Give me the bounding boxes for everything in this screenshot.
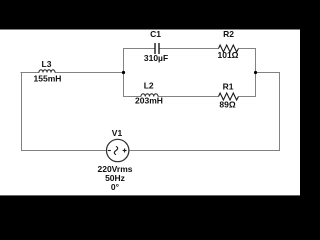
wire: bottom right segment <box>129 150 280 152</box>
svg-text:310µF: 310µF <box>144 53 168 63</box>
wire: top branch R2 right lead <box>239 48 257 50</box>
wire: bottom left segment <box>21 150 107 152</box>
svg-text:101Ω: 101Ω <box>218 50 239 60</box>
AC source V1 <box>98 128 133 192</box>
wire: bottom branch L2 to R1 lead <box>158 96 219 98</box>
svg-text:203mH: 203mH <box>135 96 163 106</box>
svg-text:V1: V1 <box>112 128 123 138</box>
svg-text:89Ω: 89Ω <box>219 100 235 110</box>
resistor R2 <box>218 29 239 60</box>
wire: right vertical riser <box>279 72 281 151</box>
wire: left vertical <box>21 73 23 151</box>
wire: top branch C1 to R2 lead <box>159 48 218 50</box>
inductor L2 <box>135 81 163 106</box>
wire: bottom branch R1 right lead <box>239 96 257 98</box>
schematic canvas <box>0 30 300 196</box>
node B junction dot <box>122 71 125 74</box>
svg-text:155mH: 155mH <box>34 74 62 84</box>
wire: bottom branch L2 left lead <box>123 96 141 98</box>
wire: node A to right riser <box>255 72 280 74</box>
svg-text:R2: R2 <box>223 29 234 39</box>
wire: parallel box left vertical <box>123 48 125 97</box>
svg-text:C1: C1 <box>150 29 161 39</box>
capacitor C1 <box>144 29 168 63</box>
node A junction dot <box>254 71 257 74</box>
svg-text:0°: 0° <box>111 182 120 192</box>
inductor L3 <box>34 59 62 84</box>
svg-text:L3: L3 <box>42 59 52 69</box>
resistor R1 <box>219 82 239 110</box>
svg-text:L2: L2 <box>144 81 154 91</box>
wire: top branch C1 left lead <box>123 48 155 50</box>
wire: L3 right lead to node B <box>55 72 123 74</box>
wire: L3 left lead <box>21 72 40 74</box>
svg-text:R1: R1 <box>223 82 234 92</box>
wire: parallel box right vertical <box>255 48 257 97</box>
